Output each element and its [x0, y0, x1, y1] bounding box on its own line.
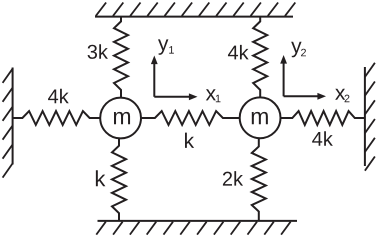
label k (middle) — [185, 133, 194, 148]
label m (left mass) — [114, 112, 130, 124]
label 2k — [223, 171, 243, 185]
mass m (left circle) — [100, 98, 141, 139]
label 3k — [88, 44, 108, 59]
label m (right mass) — [252, 112, 268, 124]
spring 4k (left horizontal) — [13, 111, 100, 125]
label y2 — [291, 42, 301, 57]
wall: top ceiling (line + hatching) — [95, 3, 295, 17]
spring k (middle horizontal) — [142, 111, 240, 125]
spring k (bottom-left vertical) — [112, 139, 126, 221]
label x1 — [206, 89, 216, 100]
label k (bottom-left) — [96, 170, 106, 186]
spring 4k (top-right vertical) — [253, 17, 267, 98]
axes x1/y1 (left coordinate frame) — [151, 56, 198, 101]
label 4k (left) — [48, 89, 69, 103]
mass m (right circle) — [240, 97, 281, 138]
spring 2k (bottom-right vertical) — [252, 138, 266, 221]
label 4k (top) — [228, 45, 249, 59]
wall: right (line + hatching) — [365, 63, 375, 171]
wall: left (line + hatching) — [3, 68, 13, 178]
wall: bottom floor (line + hatching) — [96, 221, 297, 235]
label y1 — [158, 39, 168, 54]
spring 4k (right horizontal) — [281, 111, 365, 125]
spring 3k (top-left vertical) — [114, 17, 128, 98]
label 4k (right) — [312, 131, 333, 145]
axes x2/y2 (right coordinate frame) — [280, 55, 326, 100]
label x2 — [335, 89, 345, 100]
